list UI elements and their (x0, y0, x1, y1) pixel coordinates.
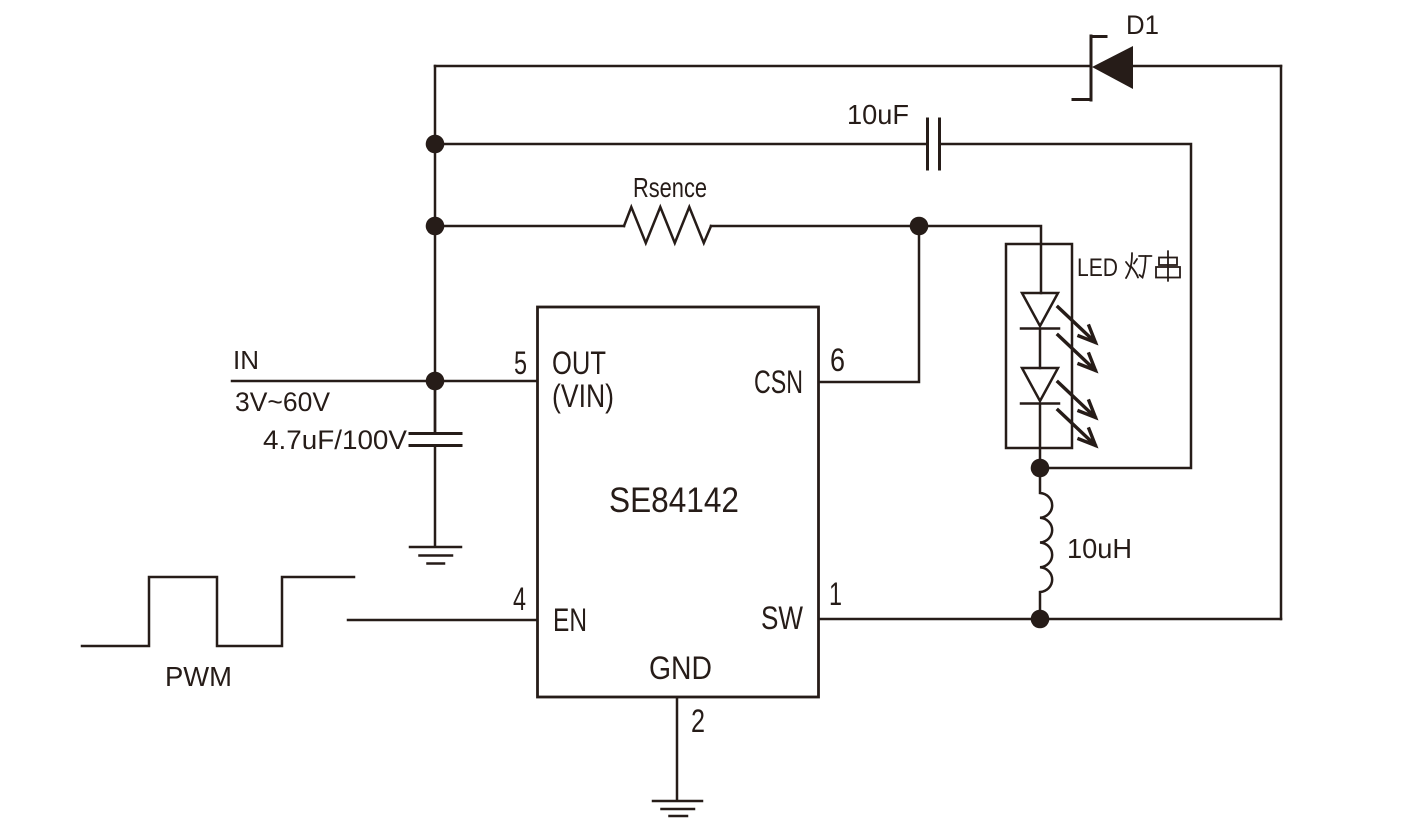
capacitor C1 4.7uF/100V plates (410, 434, 461, 446)
svg-text:10uH: 10uH (1067, 533, 1132, 564)
wire left vertical input bus (434, 66, 437, 433)
wire GND pin 2 (676, 698, 679, 800)
LED1 anode wire segment (1039, 329, 1042, 368)
wire Rsence net right segment to LED string top (711, 226, 1041, 293)
arrow LED1 b (1058, 335, 1096, 371)
LED2 cathode wire to bottom node (1039, 404, 1042, 468)
svg-text:PWM: PWM (165, 661, 232, 692)
svg-text:D1: D1 (1126, 10, 1159, 40)
svg-text:1: 1 (829, 576, 842, 612)
svg-text:3V~60V: 3V~60V (235, 387, 330, 417)
diode D1 cathode bar with hooks (1073, 36, 1106, 100)
svg-text:4.7uF/100V: 4.7uF/100V (263, 425, 407, 455)
wire IN to OUT pin 5 (232, 380, 537, 383)
resistor Rsence (624, 207, 711, 243)
wire right vertical from D1 down to SW net (1280, 66, 1283, 619)
inductor L1 10uH (1040, 468, 1052, 619)
svg-text:10uF: 10uF (847, 99, 909, 130)
svg-text:LED: LED (1077, 254, 1118, 282)
svg-text:SW: SW (761, 600, 804, 636)
wire 10uF net left segment (435, 143, 927, 146)
wire PWM to EN pin 4 (348, 619, 537, 622)
svg-text:GND: GND (649, 650, 712, 686)
IC U1 SE84142 body (538, 307, 819, 697)
svg-text:SE84142: SE84142 (609, 481, 739, 520)
LED2 symbol (1021, 368, 1059, 404)
svg-text:EN: EN (553, 602, 587, 638)
hanzi 灯 (1126, 253, 1152, 278)
node dot LED bottom/10uF/L1 (1031, 459, 1050, 478)
wire 10uF net right segment to right-mid vertical (940, 144, 1191, 468)
svg-text:OUT: OUT (552, 345, 606, 381)
node dot SW/L1 (1031, 610, 1050, 629)
LED light-emission arrows (1058, 307, 1096, 446)
wire top net from input node to D1 anode (435, 65, 1091, 68)
arrow LED2 b (1058, 410, 1096, 446)
IC pin labels (513, 342, 845, 739)
wire Rsence net left segment (435, 225, 624, 228)
wire CSN pin 6 to Rsence net (819, 226, 919, 382)
svg-text:CSN: CSN (754, 364, 803, 400)
LED1 symbol (1021, 293, 1059, 329)
PWM square waveform (82, 577, 354, 646)
wire 4.7uF to ground (434, 446, 437, 546)
svg-text:2: 2 (691, 703, 705, 739)
node dot input/10uF (426, 135, 445, 154)
ground under 4.7uF (410, 547, 461, 564)
node dot CSN/Rsence (910, 217, 929, 236)
ground under pin 2 (653, 801, 702, 816)
wire input node down to 4.7uF (434, 381, 437, 433)
svg-text:5: 5 (514, 345, 527, 381)
wire SW pin 1 to right vertical (819, 618, 1281, 621)
svg-text:4: 4 (513, 581, 526, 617)
node dot input/Rsence (426, 217, 445, 236)
svg-text:Rsence: Rsence (633, 172, 707, 203)
capacitor C2 10uF plates (928, 119, 940, 169)
arrow LED1 a (1058, 307, 1096, 343)
diode D1 triangle (1092, 46, 1133, 89)
svg-text:(VIN): (VIN) (552, 378, 614, 414)
wire D1 cathode to top-right corner (1133, 65, 1281, 68)
node dot IN/pin5/4.7uF (426, 372, 445, 391)
arrow LED2 a (1058, 382, 1096, 418)
hanzi 串 (1156, 251, 1180, 281)
svg-text:6: 6 (830, 342, 845, 378)
LED string box (1006, 244, 1072, 448)
svg-text:IN: IN (233, 345, 259, 375)
